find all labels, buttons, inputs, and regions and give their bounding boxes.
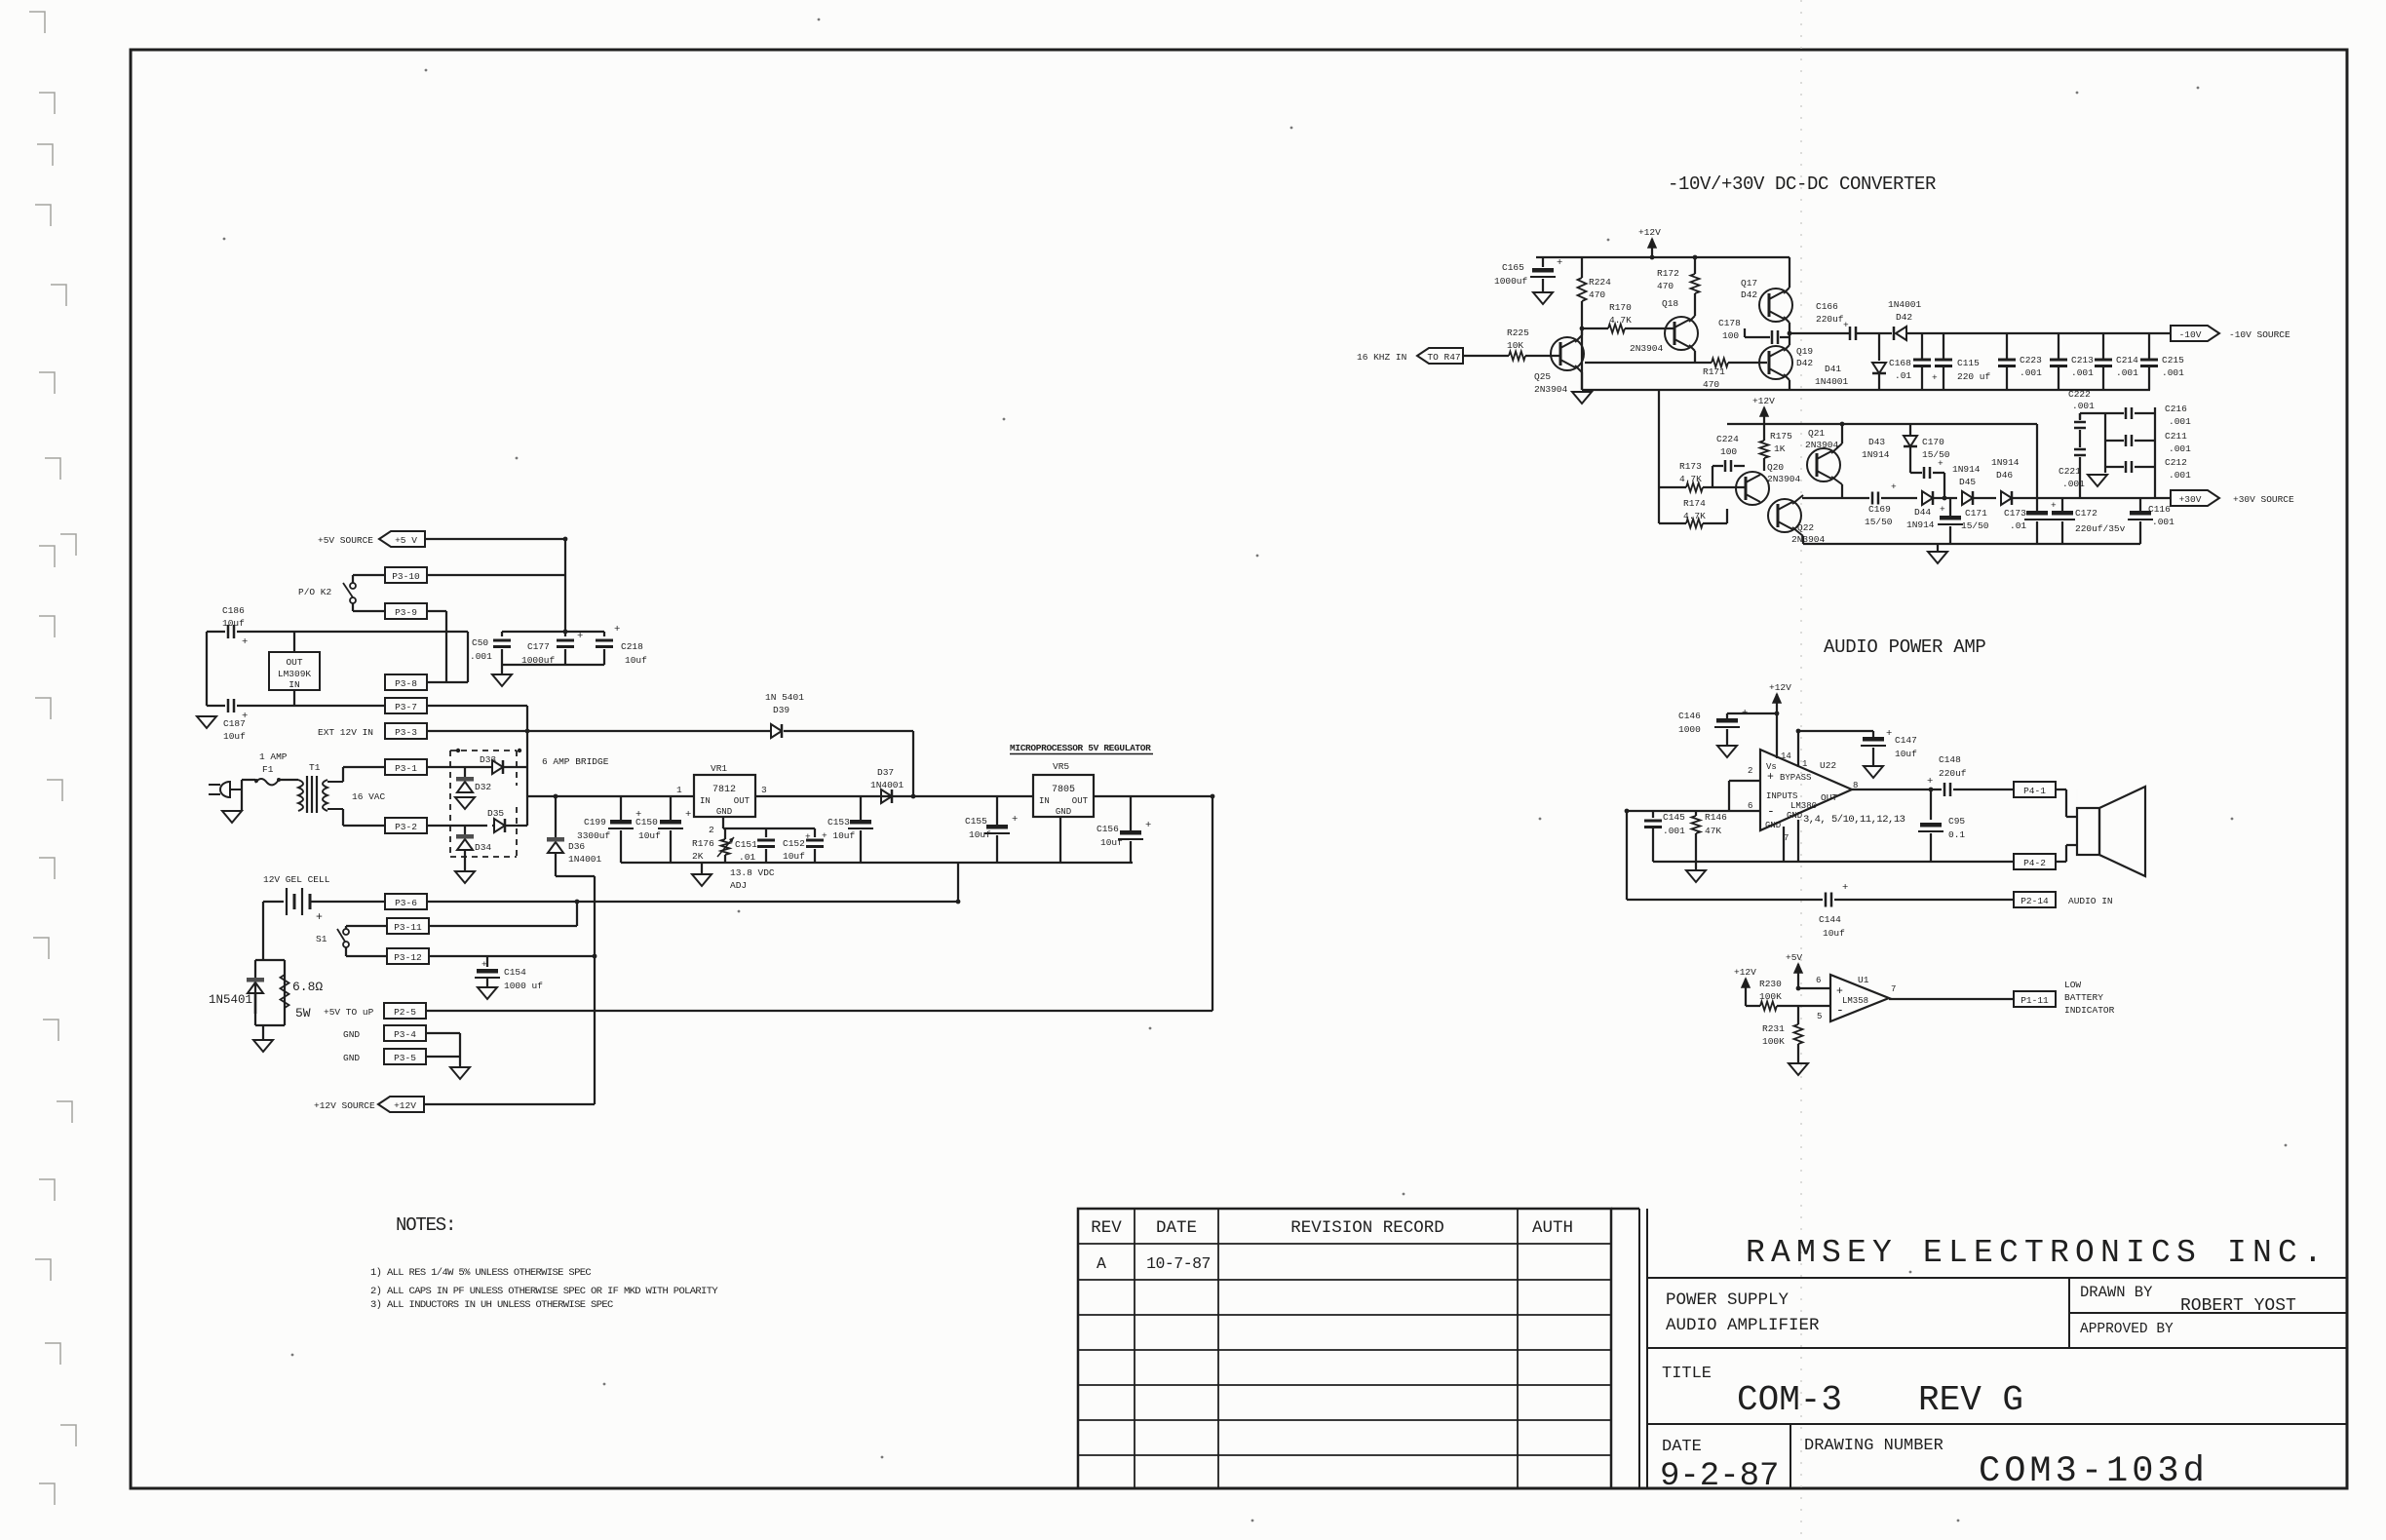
svg-text:OUT: OUT bbox=[734, 796, 750, 806]
svg-text:2K: 2K bbox=[692, 851, 704, 862]
svg-text:C173: C173 bbox=[2004, 508, 2026, 519]
svg-text:+ 10uf: + 10uf bbox=[822, 830, 856, 841]
svg-text:C165: C165 bbox=[1502, 262, 1524, 273]
svg-text:R230: R230 bbox=[1759, 979, 1782, 989]
svg-text:-10V/+30V DC-DC CONVERTER: -10V/+30V DC-DC CONVERTER bbox=[1668, 173, 1936, 195]
svg-text:C50: C50 bbox=[472, 637, 488, 648]
svg-text:220uf: 220uf bbox=[1816, 314, 1844, 325]
svg-text:P3-5: P3-5 bbox=[394, 1053, 416, 1063]
svg-text:1N914: 1N914 bbox=[1862, 449, 1890, 460]
svg-text:APPROVED BY: APPROVED BY bbox=[2080, 1322, 2174, 1337]
svg-text:+: + bbox=[614, 624, 620, 635]
svg-text:R231: R231 bbox=[1762, 1023, 1785, 1034]
svg-text:T1: T1 bbox=[309, 762, 321, 773]
svg-text:DATE: DATE bbox=[1662, 1438, 1702, 1456]
svg-text:.001: .001 bbox=[2162, 367, 2184, 378]
svg-text:10uf: 10uf bbox=[969, 829, 991, 840]
svg-text:D39: D39 bbox=[773, 705, 789, 715]
svg-text:P1-11: P1-11 bbox=[2020, 995, 2049, 1006]
svg-text:P3-12: P3-12 bbox=[394, 952, 422, 963]
svg-text:R172: R172 bbox=[1657, 268, 1679, 279]
svg-text:GND: GND bbox=[343, 1029, 360, 1040]
svg-text:1N4001: 1N4001 bbox=[1888, 299, 1922, 310]
svg-text:COM-3: COM-3 bbox=[1737, 1380, 1842, 1420]
svg-text:470: 470 bbox=[1657, 281, 1674, 291]
svg-text:VR5: VR5 bbox=[1053, 761, 1069, 772]
svg-text:C150: C150 bbox=[635, 817, 658, 828]
svg-text:D35: D35 bbox=[487, 808, 504, 819]
svg-text:C216: C216 bbox=[2165, 404, 2187, 414]
svg-text:1K: 1K bbox=[1774, 443, 1786, 454]
svg-text:C146: C146 bbox=[1678, 711, 1701, 721]
svg-text:15/50: 15/50 bbox=[1865, 517, 1893, 527]
svg-text:P3-1: P3-1 bbox=[395, 763, 417, 774]
svg-text:+: + bbox=[805, 831, 811, 842]
svg-text:2N3904: 2N3904 bbox=[1630, 343, 1664, 354]
svg-text:.01: .01 bbox=[1895, 370, 1911, 381]
svg-text:GND: GND bbox=[1787, 811, 1802, 821]
svg-text:6: 6 bbox=[1816, 976, 1821, 985]
svg-text:10-7-87: 10-7-87 bbox=[1146, 1254, 1211, 1273]
svg-text:-: - bbox=[1836, 1003, 1844, 1018]
svg-text:RAMSEY ELECTRONICS INC.: RAMSEY ELECTRONICS INC. bbox=[1746, 1235, 2328, 1271]
svg-text:2) ALL CAPS IN PF UNLESS OTHER: 2) ALL CAPS IN PF UNLESS OTHERWISE SPEC … bbox=[370, 1286, 718, 1297]
svg-text:LM380: LM380 bbox=[1790, 801, 1817, 811]
svg-text:+12V: +12V bbox=[1752, 396, 1775, 406]
svg-text:15/50: 15/50 bbox=[1922, 449, 1950, 460]
svg-text:+: + bbox=[1842, 882, 1848, 894]
svg-text:R146: R146 bbox=[1705, 812, 1727, 823]
svg-text:IN: IN bbox=[289, 679, 299, 690]
svg-text:TO R47: TO R47 bbox=[1427, 352, 1460, 363]
svg-text:+5 V: +5 V bbox=[395, 535, 417, 546]
svg-text:-: - bbox=[1767, 804, 1775, 819]
svg-text:C177: C177 bbox=[527, 641, 550, 652]
svg-text:C199: C199 bbox=[584, 817, 606, 828]
svg-text:C166: C166 bbox=[1816, 301, 1838, 312]
svg-text:A: A bbox=[1097, 1254, 1106, 1273]
svg-text:-10V: -10V bbox=[2179, 329, 2202, 340]
svg-text:GND: GND bbox=[1765, 821, 1781, 830]
svg-text:C187: C187 bbox=[223, 718, 246, 729]
svg-text:1000: 1000 bbox=[1678, 724, 1701, 735]
svg-text:C218: C218 bbox=[621, 641, 643, 652]
svg-text:IN: IN bbox=[700, 796, 711, 806]
svg-text:BYPASS: BYPASS bbox=[1780, 773, 1811, 783]
svg-text:P4-2: P4-2 bbox=[2023, 858, 2046, 868]
svg-text:C144: C144 bbox=[1819, 914, 1841, 925]
svg-text:9-2-87: 9-2-87 bbox=[1660, 1458, 1779, 1495]
svg-text:C224: C224 bbox=[1716, 434, 1739, 444]
svg-text:+5V: +5V bbox=[1786, 952, 1802, 963]
svg-text:10uf: 10uf bbox=[638, 830, 661, 841]
svg-text:C213: C213 bbox=[2071, 355, 2094, 366]
svg-text:C222: C222 bbox=[2068, 389, 2091, 400]
svg-text:REVISION RECORD: REVISION RECORD bbox=[1290, 1218, 1444, 1238]
svg-text:3300uf: 3300uf bbox=[577, 830, 611, 841]
svg-text:C156: C156 bbox=[1097, 824, 1119, 834]
svg-text:1N914: 1N914 bbox=[1952, 464, 1981, 475]
svg-text:NOTES:: NOTES: bbox=[396, 1214, 455, 1236]
svg-text:3,4, 5/10,11,12,13: 3,4, 5/10,11,12,13 bbox=[1803, 814, 1905, 826]
svg-text:D45: D45 bbox=[1959, 477, 1976, 487]
svg-text:ADJ: ADJ bbox=[730, 880, 747, 891]
svg-text:F1: F1 bbox=[262, 764, 274, 775]
svg-text:DRAWN BY: DRAWN BY bbox=[2080, 1284, 2153, 1301]
svg-text:1N5401: 1N5401 bbox=[209, 993, 252, 1007]
svg-text:TITLE: TITLE bbox=[1662, 1365, 1712, 1383]
svg-text:C115: C115 bbox=[1957, 358, 1980, 368]
svg-text:1 AMP: 1 AMP bbox=[259, 751, 288, 762]
svg-text:BATTERY: BATTERY bbox=[2064, 992, 2103, 1003]
svg-text:C214: C214 bbox=[2116, 355, 2138, 366]
svg-text:+: + bbox=[1891, 481, 1897, 492]
svg-text:7812: 7812 bbox=[712, 785, 736, 795]
svg-text:1N4001: 1N4001 bbox=[870, 780, 904, 790]
svg-text:C116: C116 bbox=[2148, 504, 2171, 515]
svg-text:+: + bbox=[1938, 458, 1943, 469]
svg-text:P3-8: P3-8 bbox=[395, 678, 417, 689]
svg-text:C221: C221 bbox=[2059, 466, 2081, 477]
svg-text:AUDIO POWER AMP: AUDIO POWER AMP bbox=[1824, 636, 1986, 658]
svg-text:220uf: 220uf bbox=[1939, 768, 1967, 779]
svg-text:3: 3 bbox=[761, 785, 767, 795]
svg-text:1000uf: 1000uf bbox=[1494, 276, 1528, 287]
svg-text:+: + bbox=[1012, 814, 1018, 826]
svg-text:13.8 VDC: 13.8 VDC bbox=[730, 867, 775, 878]
svg-text:.001: .001 bbox=[2169, 470, 2191, 481]
svg-text:6 AMP BRIDGE: 6 AMP BRIDGE bbox=[542, 756, 609, 767]
svg-text:D34: D34 bbox=[475, 842, 491, 853]
svg-text:10uf: 10uf bbox=[1895, 749, 1917, 759]
svg-text:1N4001: 1N4001 bbox=[1815, 376, 1849, 387]
svg-text:R176: R176 bbox=[692, 838, 714, 849]
svg-text:Q19: Q19 bbox=[1796, 346, 1813, 357]
svg-text:GND: GND bbox=[716, 807, 732, 817]
svg-text:.001: .001 bbox=[2116, 367, 2138, 378]
svg-text:3) ALL INDUCTORS IN UH UNLESS: 3) ALL INDUCTORS IN UH UNLESS OTHERWISE … bbox=[370, 1299, 613, 1311]
svg-text:+: + bbox=[1145, 820, 1151, 831]
svg-text:D44: D44 bbox=[1914, 507, 1931, 518]
svg-text:Q18: Q18 bbox=[1662, 298, 1678, 309]
svg-text:+5V TO uP: +5V TO uP bbox=[324, 1007, 374, 1018]
svg-text:R173: R173 bbox=[1679, 461, 1702, 472]
svg-text:+: + bbox=[685, 809, 691, 821]
svg-text:R170: R170 bbox=[1609, 302, 1632, 313]
svg-text:+: + bbox=[1927, 776, 1933, 788]
svg-text:+30V: +30V bbox=[2179, 494, 2202, 505]
svg-text:REV G: REV G bbox=[1918, 1380, 2023, 1420]
svg-text:.001: .001 bbox=[2071, 367, 2094, 378]
svg-text:7: 7 bbox=[1891, 984, 1896, 994]
svg-text:OUT: OUT bbox=[1821, 792, 1837, 803]
svg-text:.01: .01 bbox=[2010, 520, 2026, 531]
svg-text:AUDIO AMPLIFIER: AUDIO AMPLIFIER bbox=[1666, 1316, 1820, 1335]
svg-text:C186: C186 bbox=[222, 605, 245, 616]
svg-text:U1: U1 bbox=[1858, 975, 1869, 985]
svg-text:DRAWING NUMBER: DRAWING NUMBER bbox=[1804, 1437, 1943, 1455]
svg-text:+12V: +12V bbox=[394, 1100, 416, 1111]
svg-text:P3-3: P3-3 bbox=[395, 727, 417, 738]
svg-text:C212: C212 bbox=[2165, 457, 2187, 468]
svg-text:Q17: Q17 bbox=[1741, 278, 1757, 289]
svg-text:C154: C154 bbox=[504, 967, 526, 978]
svg-text:D42: D42 bbox=[1896, 312, 1912, 323]
svg-text:7805: 7805 bbox=[1052, 785, 1075, 795]
svg-text:GND: GND bbox=[1056, 807, 1071, 817]
svg-text:10uf: 10uf bbox=[223, 731, 246, 742]
svg-text:P3-11: P3-11 bbox=[394, 922, 422, 933]
svg-text:LM358: LM358 bbox=[1842, 996, 1868, 1006]
svg-text:C151: C151 bbox=[735, 839, 757, 850]
svg-text:+: + bbox=[481, 959, 487, 970]
svg-text:6.8Ω: 6.8Ω bbox=[292, 980, 323, 994]
svg-text:470: 470 bbox=[1703, 379, 1719, 390]
svg-text:+: + bbox=[242, 636, 248, 648]
svg-text:.001: .001 bbox=[1663, 826, 1685, 836]
svg-text:2: 2 bbox=[1748, 766, 1752, 776]
svg-text:IN: IN bbox=[1039, 796, 1050, 806]
svg-text:100: 100 bbox=[1720, 446, 1737, 457]
svg-text:47K: 47K bbox=[1705, 826, 1721, 836]
svg-text:2N3904: 2N3904 bbox=[1534, 384, 1568, 395]
svg-text:5: 5 bbox=[1817, 1012, 1822, 1021]
svg-text:VR1: VR1 bbox=[711, 763, 727, 774]
svg-text:+12V: +12V bbox=[1734, 967, 1756, 978]
svg-text:10uf: 10uf bbox=[1823, 928, 1845, 939]
svg-text:C152: C152 bbox=[783, 838, 805, 849]
svg-text:+: + bbox=[577, 631, 583, 642]
svg-text:6: 6 bbox=[1748, 801, 1752, 811]
svg-text:C178: C178 bbox=[1718, 318, 1741, 328]
svg-text:+: + bbox=[1886, 728, 1892, 740]
svg-text:1N914: 1N914 bbox=[1906, 520, 1935, 530]
svg-text:AUTH: AUTH bbox=[1532, 1218, 1573, 1238]
svg-text:220uf/35v: 220uf/35v bbox=[2075, 523, 2126, 534]
svg-text:MICROPROCESSOR 5V REGULATOR: MICROPROCESSOR 5V REGULATOR bbox=[1010, 743, 1151, 753]
svg-text:R174: R174 bbox=[1683, 498, 1706, 509]
svg-text:+: + bbox=[1843, 320, 1849, 330]
svg-text:470: 470 bbox=[1589, 289, 1605, 300]
svg-text:C170: C170 bbox=[1922, 437, 1944, 447]
svg-text:.001: .001 bbox=[2072, 401, 2095, 411]
svg-text:C211: C211 bbox=[2165, 431, 2187, 442]
svg-text:+: + bbox=[1557, 257, 1562, 269]
svg-text:16 VAC: 16 VAC bbox=[352, 791, 386, 802]
svg-text:P3-6: P3-6 bbox=[395, 898, 417, 908]
svg-text:.001: .001 bbox=[470, 651, 492, 662]
svg-text:P3-4: P3-4 bbox=[394, 1029, 416, 1040]
svg-text:OUT: OUT bbox=[1072, 796, 1089, 806]
svg-text:+: + bbox=[316, 911, 323, 924]
svg-text:P4-1: P4-1 bbox=[2023, 786, 2046, 796]
svg-text:P2-14: P2-14 bbox=[2020, 896, 2049, 906]
svg-text:1N 5401: 1N 5401 bbox=[765, 692, 804, 703]
svg-text:.001: .001 bbox=[2020, 367, 2042, 378]
svg-text:C148: C148 bbox=[1939, 754, 1961, 765]
svg-text:C168: C168 bbox=[1889, 358, 1911, 368]
svg-text:C172: C172 bbox=[2075, 508, 2097, 519]
svg-text:C215: C215 bbox=[2162, 355, 2184, 366]
svg-text:P3-7: P3-7 bbox=[395, 702, 417, 712]
svg-text:C95: C95 bbox=[1948, 816, 1965, 827]
svg-text:C153: C153 bbox=[827, 817, 850, 828]
svg-text:16 KHZ IN: 16 KHZ IN bbox=[1357, 352, 1406, 363]
svg-text:+30V SOURCE: +30V SOURCE bbox=[2233, 494, 2294, 505]
svg-text:R225: R225 bbox=[1507, 327, 1529, 338]
svg-text:D36: D36 bbox=[568, 841, 585, 852]
svg-text:POWER SUPPLY: POWER SUPPLY bbox=[1666, 1290, 1789, 1310]
svg-text:C155: C155 bbox=[965, 816, 987, 827]
svg-text:Q21: Q21 bbox=[1808, 428, 1825, 439]
svg-text:P/O K2: P/O K2 bbox=[298, 587, 332, 597]
svg-text:10uf: 10uf bbox=[783, 851, 805, 862]
svg-text:Q20: Q20 bbox=[1767, 462, 1784, 473]
svg-text:.001: .001 bbox=[2062, 479, 2085, 489]
svg-text:R175: R175 bbox=[1770, 431, 1792, 442]
svg-text:-10V SOURCE: -10V SOURCE bbox=[2229, 329, 2290, 340]
svg-text:1) ALL RES 1/4W 5% UNLESS OTHE: 1) ALL RES 1/4W 5% UNLESS OTHERWISE SPEC bbox=[370, 1267, 591, 1279]
svg-text:C171: C171 bbox=[1965, 508, 1987, 519]
svg-text:.001: .001 bbox=[2169, 443, 2191, 454]
svg-text:P3-10: P3-10 bbox=[392, 571, 420, 582]
svg-text:+: + bbox=[1932, 372, 1938, 383]
svg-text:+12V: +12V bbox=[1769, 682, 1791, 693]
svg-text:EXT 12V IN: EXT 12V IN bbox=[318, 727, 373, 738]
svg-text:COM3-103d: COM3-103d bbox=[1979, 1451, 2209, 1492]
svg-text:.001: .001 bbox=[2169, 416, 2191, 427]
svg-text:.001: .001 bbox=[2152, 517, 2174, 527]
svg-text:4.7K: 4.7K bbox=[1609, 315, 1632, 326]
svg-text:P2-5: P2-5 bbox=[394, 1007, 416, 1018]
svg-text:0.1: 0.1 bbox=[1948, 829, 1965, 840]
svg-text:1: 1 bbox=[676, 785, 682, 795]
svg-text:GND: GND bbox=[343, 1053, 360, 1063]
svg-text:S1: S1 bbox=[316, 934, 327, 944]
svg-text:+5V SOURCE: +5V SOURCE bbox=[318, 535, 373, 546]
svg-text:2: 2 bbox=[709, 825, 714, 835]
svg-text:D42: D42 bbox=[1796, 358, 1813, 368]
svg-text:+: + bbox=[2051, 500, 2057, 511]
svg-text:15/50: 15/50 bbox=[1961, 520, 1989, 531]
svg-text:14: 14 bbox=[1781, 751, 1791, 761]
svg-text:D46: D46 bbox=[1996, 470, 2013, 481]
svg-text:Q25: Q25 bbox=[1534, 371, 1551, 382]
svg-text:D42: D42 bbox=[1741, 289, 1757, 300]
svg-text:220 uf: 220 uf bbox=[1957, 371, 1991, 382]
svg-text:D41: D41 bbox=[1825, 364, 1841, 374]
svg-text:D33: D33 bbox=[480, 754, 496, 765]
svg-text:12V GEL CELL: 12V GEL CELL bbox=[263, 874, 330, 885]
svg-text:2N3904: 2N3904 bbox=[1767, 474, 1801, 484]
svg-text:100: 100 bbox=[1722, 330, 1739, 341]
svg-text:100K: 100K bbox=[1759, 991, 1782, 1002]
svg-text:.01: .01 bbox=[739, 852, 755, 863]
svg-text:LM309K: LM309K bbox=[278, 669, 312, 679]
svg-text:+12V SOURCE: +12V SOURCE bbox=[314, 1100, 375, 1111]
svg-text:+: + bbox=[1767, 771, 1774, 784]
svg-text:INDICATOR: INDICATOR bbox=[2064, 1005, 2115, 1016]
svg-text:P3-2: P3-2 bbox=[395, 822, 417, 832]
svg-text:REV: REV bbox=[1091, 1218, 1122, 1238]
svg-text:C223: C223 bbox=[2020, 355, 2042, 366]
svg-text:D43: D43 bbox=[1868, 437, 1885, 447]
svg-text:C147: C147 bbox=[1895, 735, 1917, 746]
svg-text:1N914: 1N914 bbox=[1991, 457, 2020, 468]
svg-text:5W: 5W bbox=[295, 1006, 311, 1020]
svg-text:AUDIO IN: AUDIO IN bbox=[2068, 896, 2113, 906]
svg-text:LOW: LOW bbox=[2064, 980, 2081, 990]
svg-text:+: + bbox=[1940, 504, 1945, 515]
svg-text:D32: D32 bbox=[475, 782, 491, 792]
svg-text:R171: R171 bbox=[1703, 366, 1725, 377]
svg-text:+: + bbox=[1742, 708, 1748, 719]
svg-text:R224: R224 bbox=[1589, 277, 1611, 288]
svg-text:OUT: OUT bbox=[286, 657, 302, 668]
svg-text:1000 uf: 1000 uf bbox=[504, 981, 543, 991]
svg-text:INPUTS: INPUTS bbox=[1766, 791, 1797, 801]
svg-text:+12V: +12V bbox=[1638, 227, 1661, 238]
svg-text:C145: C145 bbox=[1663, 812, 1685, 823]
svg-text:DATE: DATE bbox=[1156, 1218, 1197, 1238]
svg-text:C169: C169 bbox=[1868, 504, 1891, 515]
svg-text:U22: U22 bbox=[1820, 760, 1836, 771]
svg-text:D37: D37 bbox=[877, 767, 894, 778]
svg-text:1: 1 bbox=[1802, 759, 1807, 769]
svg-text:10uf: 10uf bbox=[625, 655, 647, 666]
svg-text:P3-9: P3-9 bbox=[395, 607, 417, 618]
svg-text:100K: 100K bbox=[1762, 1036, 1785, 1047]
svg-text:1N4001: 1N4001 bbox=[568, 854, 602, 865]
